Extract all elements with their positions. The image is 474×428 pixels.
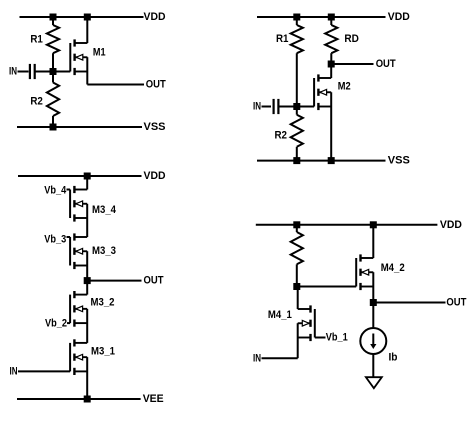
svg-text:M4_1: M4_1 — [268, 309, 292, 321]
svg-text:VDD: VDD — [388, 11, 410, 23]
svg-text:VDD: VDD — [144, 170, 166, 182]
svg-text:R1: R1 — [276, 33, 289, 45]
svg-text:R2: R2 — [30, 96, 43, 108]
svg-text:M1: M1 — [93, 47, 106, 59]
svg-text:Vb_4: Vb_4 — [44, 184, 67, 196]
svg-text:RD: RD — [344, 33, 359, 45]
svg-text:M3_3: M3_3 — [92, 245, 116, 257]
svg-text:OUT: OUT — [144, 275, 164, 287]
svg-text:M3_2: M3_2 — [91, 297, 115, 309]
svg-text:M4_2: M4_2 — [381, 262, 405, 274]
svg-text:Vb_3: Vb_3 — [44, 233, 66, 245]
svg-text:Vb_2: Vb_2 — [45, 318, 67, 330]
svg-text:M3_1: M3_1 — [91, 346, 115, 358]
svg-text:M2: M2 — [338, 80, 351, 92]
svg-text:VSS: VSS — [388, 155, 410, 167]
svg-text:Ib: Ib — [389, 352, 398, 364]
svg-text:IN: IN — [9, 66, 17, 78]
svg-text:IN: IN — [253, 101, 261, 113]
svg-text:OUT: OUT — [446, 297, 466, 309]
svg-text:VDD: VDD — [440, 219, 462, 231]
svg-text:IN: IN — [10, 366, 18, 378]
svg-text:R2: R2 — [274, 130, 287, 142]
svg-text:VEE: VEE — [143, 393, 164, 405]
svg-text:OUT: OUT — [146, 79, 166, 91]
svg-text:R1: R1 — [30, 34, 43, 46]
svg-text:OUT: OUT — [376, 58, 396, 70]
svg-text:VSS: VSS — [144, 121, 166, 133]
svg-text:IN: IN — [253, 352, 261, 364]
svg-text:M3_4: M3_4 — [92, 204, 117, 216]
svg-text:Vb_1: Vb_1 — [326, 332, 348, 344]
svg-text:VDD: VDD — [144, 11, 166, 23]
